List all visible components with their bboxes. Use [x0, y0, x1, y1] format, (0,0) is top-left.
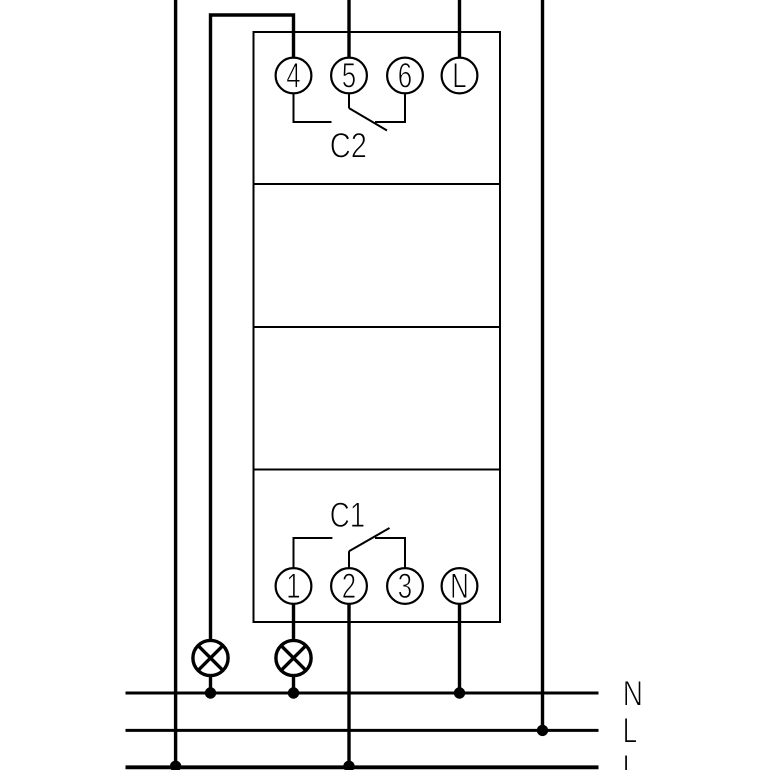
wire: terminal N down to N bus	[458, 605, 461, 694]
node: junction dot terminal N wire / N bus	[454, 687, 465, 698]
terminal 4 circle	[276, 58, 312, 94]
contact C1 fixed contact from terminal 3	[375, 538, 405, 568]
terminal 5 circle	[331, 58, 367, 94]
svg-text:N: N	[450, 566, 469, 606]
svg-text:L: L	[623, 711, 637, 751]
terminal L circle	[442, 58, 478, 94]
wire: lamp E2 stub to N bus	[292, 677, 295, 693]
device box divider 3	[254, 469, 501, 471]
node: junction dot lamp E1 / N bus	[205, 687, 216, 698]
svg-text:5: 5	[342, 56, 356, 96]
svg-text:L: L	[623, 748, 637, 770]
svg-text:2: 2	[342, 566, 356, 606]
bus line L (switched, bottom)	[126, 765, 599, 769]
terminal N circle	[442, 568, 478, 604]
lamp E2 cross	[281, 645, 307, 671]
wire: terminal L feed from top	[458, 0, 461, 60]
contact C2 moving blade	[349, 108, 387, 131]
node: junction dot terminal 2 wire / bottom L bus	[343, 761, 354, 770]
device box divider 2	[254, 326, 501, 328]
svg-text:6: 6	[398, 56, 412, 96]
node: junction dot left feed / bottom L bus	[170, 761, 181, 770]
device box divider 1	[254, 183, 501, 185]
device box outline	[254, 32, 501, 622]
terminal 2 circle	[331, 568, 367, 604]
lamp E1 cross	[198, 645, 224, 671]
wire: terminal 2 down to bottom L bus	[347, 605, 350, 768]
wire: terminal 1 down to lamp E2	[292, 605, 295, 641]
lamp E2 circle	[276, 640, 311, 675]
svg-text:C2: C2	[330, 126, 367, 165]
svg-text:1: 1	[286, 566, 300, 606]
svg-text:4: 4	[286, 56, 300, 96]
node: junction dot right feed / L bus	[537, 725, 548, 736]
terminal 3 circle	[387, 568, 423, 604]
wire: terminal 4 up-over-down to lamp E1	[211, 15, 294, 640]
wire: lamp E1 stub to N bus	[209, 677, 212, 693]
wire: terminal 5 feed from top	[347, 0, 350, 60]
svg-text:3: 3	[398, 566, 412, 606]
svg-text:C1: C1	[330, 495, 365, 535]
terminal 6 circle	[387, 58, 423, 94]
svg-text:L: L	[452, 56, 466, 96]
node: junction dot lamp E2 / N bus	[288, 687, 299, 698]
wire: left vertical feed to bottom L bus	[174, 0, 177, 767]
bus line L	[126, 729, 599, 732]
wire: right vertical feed to L bus	[541, 0, 544, 730]
contact C1 moving blade	[349, 528, 390, 551]
contact C2 fixed contact from terminal 4	[294, 95, 332, 123]
lamp E1 circle	[193, 640, 228, 675]
bus line N	[126, 692, 599, 695]
svg-text:N: N	[623, 674, 643, 714]
contact C1 fixed contact from terminal 1	[294, 538, 333, 568]
contact C2 common pole stub from terminal 5	[348, 95, 350, 109]
contact C1 common pole stub from terminal 2	[348, 551, 350, 567]
terminal 1 circle	[276, 568, 312, 604]
contact C2 fixed contact from terminal 6	[375, 95, 405, 123]
